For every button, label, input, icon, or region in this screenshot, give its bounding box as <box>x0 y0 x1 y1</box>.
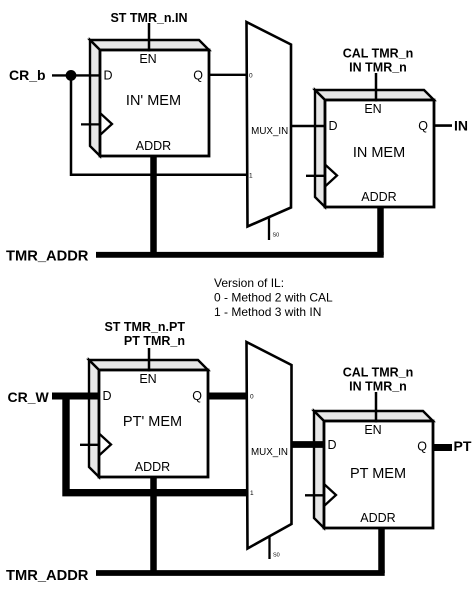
svg-text:PT: PT <box>454 438 472 454</box>
bus PT MEM Q output <box>433 444 452 451</box>
svg-text:EN: EN <box>364 423 381 437</box>
svg-text:D: D <box>329 119 338 133</box>
bus PT' MEM ADDR vertical (bottom) <box>150 477 157 573</box>
wire IN MEM Q output <box>434 124 452 127</box>
bus PT MEM ADDR vertical (bottom) <box>378 528 385 573</box>
svg-text:CAL TMR_n: CAL TMR_n <box>343 366 414 380</box>
svg-text:Q: Q <box>193 69 203 83</box>
wire CR_b input to D of IN' MEM <box>52 74 100 76</box>
wire EN enable of IN MEM <box>375 73 378 102</box>
svg-text:EN: EN <box>139 52 156 66</box>
bus TMR_ADDR horizontal (bottom) <box>96 570 385 576</box>
memory PT' MEM <box>89 360 208 477</box>
svg-text:TMR_ADDR: TMR_ADDR <box>6 568 89 584</box>
svg-text:Q: Q <box>418 119 428 133</box>
bus CR_W feedback to MUX_IN input 1 <box>66 396 248 493</box>
note Version of IL <box>214 276 333 319</box>
svg-text:0: 0 <box>250 394 254 401</box>
svg-text:EN: EN <box>139 372 156 386</box>
svg-text:PT' MEM: PT' MEM <box>123 414 182 430</box>
svg-text:IN TMR_n: IN TMR_n <box>349 61 407 75</box>
svg-text:1: 1 <box>249 173 253 180</box>
svg-text:S0: S0 <box>273 233 280 239</box>
svg-text:ST TMR_n.IN: ST TMR_n.IN <box>110 11 187 25</box>
svg-text:CR_b: CR_b <box>9 67 46 83</box>
svg-text:IN TMR_n: IN TMR_n <box>349 380 407 394</box>
wire IN' MEM Q to MUX_IN input 0 <box>209 74 247 76</box>
mux select stub S0 <box>268 216 270 240</box>
svg-text:CR_W: CR_W <box>8 389 50 405</box>
junction dot CR_b node <box>66 70 77 81</box>
svg-text:MUX_IN: MUX_IN <box>251 126 288 137</box>
svg-text:ADDR: ADDR <box>135 460 170 474</box>
memory IN MEM <box>315 90 434 207</box>
svg-text:ADDR: ADDR <box>360 511 395 525</box>
wire EN enable of PT MEM <box>375 392 378 423</box>
wire MUX_IN output to IN MEM D <box>291 125 325 128</box>
svg-text:IN' MEM: IN' MEM <box>126 93 181 109</box>
svg-text:1: 1 <box>250 490 254 497</box>
svg-text:D: D <box>103 389 112 403</box>
clock input triangle of PT MEM <box>305 484 336 506</box>
svg-text:IN MEM: IN MEM <box>353 145 405 161</box>
svg-text:Q: Q <box>192 389 202 403</box>
bus IN' MEM ADDR vertical (top) <box>150 156 157 255</box>
bus PT' MEM Q to MUX_IN input 0 <box>208 393 248 400</box>
bus CR_W input to D of PT' MEM <box>52 393 99 400</box>
mux MUX_IN (top) <box>247 22 292 240</box>
wire CR_b feedback to MUX_IN input 1 <box>71 75 247 174</box>
svg-text:PT MEM: PT MEM <box>350 466 406 482</box>
bus TMR_ADDR horizontal (top) <box>96 252 384 258</box>
svg-text:Q: Q <box>417 440 427 454</box>
svg-text:0: 0 <box>249 73 253 80</box>
svg-text:Version of IL:: Version of IL: <box>214 276 284 290</box>
bus MUX_IN output to PT MEM D <box>292 441 326 448</box>
wire EN enable of PT' MEM <box>148 348 151 372</box>
svg-text:EN: EN <box>364 102 381 116</box>
memory PT MEM <box>314 411 433 528</box>
svg-text:ADDR: ADDR <box>361 190 396 204</box>
svg-text:TMR_ADDR: TMR_ADDR <box>6 249 89 265</box>
wire EN enable of IN' MEM <box>148 23 151 52</box>
svg-text:D: D <box>104 69 113 83</box>
svg-text:D: D <box>328 438 337 452</box>
mux select stub S0 <box>268 536 270 559</box>
svg-text:IN: IN <box>454 118 468 134</box>
memory IN' MEM <box>90 40 209 156</box>
svg-text:ST TMR_n.PT: ST TMR_n.PT <box>104 320 185 334</box>
svg-text:S0: S0 <box>273 553 280 559</box>
clock input triangle of IN' MEM <box>81 113 112 135</box>
clock input triangle of PT' MEM <box>80 434 111 456</box>
svg-text:MUX_IN: MUX_IN <box>251 447 288 458</box>
svg-text:0 - Method 2 with CAL: 0 - Method 2 with CAL <box>214 291 333 305</box>
svg-text:1 - Method 3 with IN: 1 - Method 3 with IN <box>214 305 321 319</box>
svg-text:CAL TMR_n: CAL TMR_n <box>343 47 414 61</box>
clock input triangle of IN MEM <box>306 165 337 187</box>
svg-text:PT TMR_n: PT TMR_n <box>124 334 185 348</box>
svg-text:ADDR: ADDR <box>136 139 171 153</box>
bus IN MEM ADDR vertical (top) <box>377 207 384 255</box>
mux MUX_IN (bottom) <box>247 342 292 559</box>
